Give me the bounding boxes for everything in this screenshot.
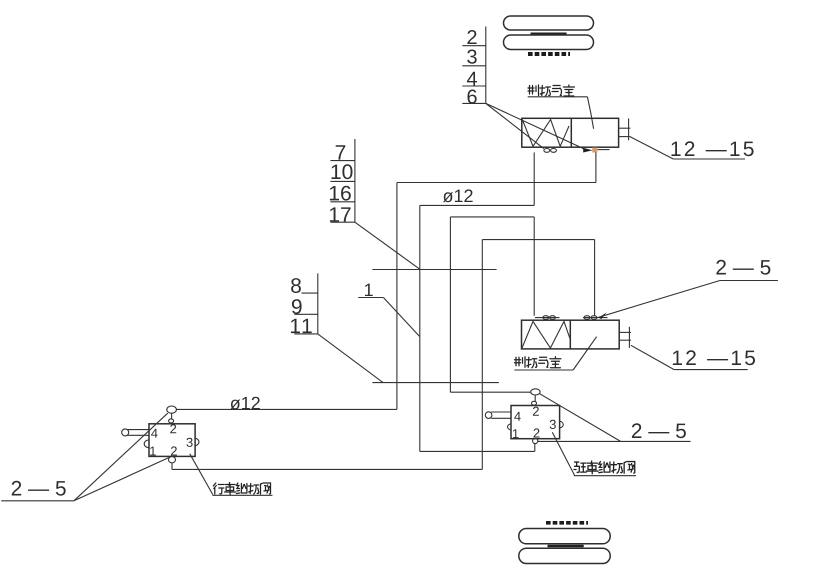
12-15 lower label [673, 350, 755, 365]
service valve left plug cap [122, 429, 129, 436]
air bellows top: middle connector bar [531, 32, 567, 35]
callout 7 underline [330, 160, 355, 162]
2-5 left underline [1, 500, 74, 502]
pipe size label ø12 upper [443, 189, 473, 202]
leader from lower chamber right port to 2-5 right [599, 281, 720, 318]
service valve bottom port circle [169, 457, 176, 463]
upper chamber right port orange marker [592, 148, 597, 153]
parking valve port 4 label [514, 412, 521, 421]
lower chamber push-rod clevis stub 2 [619, 339, 631, 341]
callout stack 2/3/4/6 vertical line [485, 27, 487, 104]
callout 16 label [330, 186, 351, 201]
leader from callout 6 to right port of upper chamber [486, 103, 584, 148]
parking valve port 3 label [550, 420, 556, 429]
parking valve bottom port stub [534, 444, 536, 452]
callout 6 underline [462, 102, 486, 104]
leader 2-5 left to service valve top port [74, 413, 168, 501]
callout 11 underline [294, 333, 318, 335]
service valve left plug line 2 [127, 434, 149, 436]
callout 17 label [330, 207, 351, 221]
lower chamber push-rod pin [628, 327, 630, 348]
service valve top port oval [169, 419, 174, 423]
label zhuchejidongfa (parking relay valve) [574, 461, 635, 474]
callout 2 underline [462, 45, 486, 47]
service valve left plug line 1 [127, 429, 149, 431]
label zhidongqishi (brake chamber) lower [515, 357, 561, 368]
service valve label leader [190, 454, 213, 495]
wire: horizontal run y182 [397, 182, 596, 184]
callout 3 underline [462, 65, 486, 67]
callout 16 underline [330, 201, 355, 203]
parking valve left plug line 2 [491, 417, 511, 419]
service valve top port neck [171, 413, 173, 419]
upper chamber push-rod pin [628, 118, 630, 140]
leader to 12-15 lower [631, 345, 674, 369]
callout 11 label [291, 319, 312, 333]
pipe bus line 1 [372, 269, 496, 271]
lower chamber left port circle 2 [550, 316, 556, 320]
lower brake chamber body [522, 320, 620, 349]
callout 1 underline [358, 297, 383, 299]
parking valve label underline [574, 475, 636, 477]
pipe bus line 2 [372, 382, 499, 384]
leader to 12-15 upper [630, 137, 673, 159]
callout 1 label [365, 284, 373, 296]
air bellows bottom: lower pill [519, 548, 610, 563]
wire: vertical run x397 [396, 183, 398, 410]
callout 8 underline [302, 292, 318, 294]
2-5 right underline [720, 280, 778, 282]
lower brake chamber spring [522, 321, 570, 348]
air bellows bottom: dashed mounting bar [546, 521, 588, 525]
upper chamber right port arrowhead [583, 148, 592, 153]
callout stack 7/10/16/17 vertical line [354, 139, 356, 222]
leader from callout 17 to pipes [355, 222, 420, 269]
air bellows bottom: upper pill [519, 529, 610, 544]
parking valve port 2 top label [533, 407, 539, 416]
2-5 parking label [632, 423, 686, 438]
pipe size label ø12 lower [230, 397, 260, 410]
2-5 right label [716, 260, 770, 275]
callout 8 label [291, 278, 301, 293]
callout 17 underline [330, 221, 355, 223]
service valve label underline [212, 494, 272, 496]
leader from callout 6 to left port of upper chamber [486, 103, 544, 148]
wire: down to lower chamber right port [594, 240, 596, 316]
wire: vertical run x420 [419, 205, 421, 451]
12-15 lower underline [674, 369, 748, 371]
12-15 upper label [672, 141, 754, 156]
air bellows top: upper pill [504, 16, 594, 30]
leader from callout 11 to pipe bus 2 [318, 334, 383, 383]
label underline lower brake chamber [514, 369, 573, 371]
callout 6 label [468, 90, 477, 104]
label leader into upper chamber [587, 97, 593, 129]
wire: service valve bottom port stub [171, 463, 173, 469]
leader from callout 1 to pipe [383, 298, 419, 337]
parking valve port 2 bottom label [534, 428, 540, 437]
label underline upper brake chamber [528, 96, 588, 98]
callout 2 label [467, 30, 476, 44]
wire: horizontal run y469 [172, 468, 482, 470]
callout 9 underline [294, 313, 318, 315]
upper chamber push-rod clevis stub 1 [619, 127, 631, 129]
wire: horizontal to service valve top port [176, 408, 397, 410]
lower chamber push-rod clevis stub 1 [619, 331, 631, 333]
lower chamber right port circle 2 [591, 316, 597, 320]
service valve left bump [144, 440, 149, 448]
wire: vertical run x482 [481, 240, 483, 470]
service valve port 2 bottom label [171, 446, 177, 455]
service valve top port circle [167, 406, 177, 413]
air bellows bottom: middle connector bar [548, 545, 584, 548]
upper brake chamber spring [522, 120, 569, 147]
service valve port 3 label [187, 438, 193, 447]
upper brake chamber divider [570, 118, 572, 147]
parking valve label leader [552, 432, 574, 475]
parking valve left plug cap [485, 412, 492, 419]
lower brake chamber divider [569, 320, 571, 349]
parking valve port 1 label [513, 429, 519, 438]
wire: down to lower chamber left port [533, 217, 535, 316]
parking valve left bump [508, 424, 511, 430]
parking valve bottom port circle [533, 438, 538, 443]
service valve port 2 top label [170, 424, 176, 433]
wire: upper chamber right port down [595, 152, 597, 182]
callout 7 label [336, 145, 346, 159]
label zhidongqishi (brake chamber) upper [528, 85, 574, 96]
2-5 left label [12, 481, 66, 496]
service valve right bump [195, 438, 199, 446]
label leader into lower chamber [573, 337, 597, 370]
wire: horizontal to parking valve top port [450, 391, 531, 393]
parking valve top port oval [532, 401, 537, 405]
callout 10 underline [330, 180, 355, 182]
upper chamber push-rod clevis stub 2 [619, 136, 631, 138]
wire: horizontal to parking valve bottom port [420, 450, 535, 452]
callout 10 label [332, 164, 353, 179]
air bellows top: lower pill [504, 35, 594, 50]
upper brake chamber body [522, 118, 619, 147]
upper chamber left port circle 2 [551, 149, 557, 153]
parking valve top port circle [531, 389, 540, 395]
parking valve left plug line 1 [491, 411, 511, 413]
callout 9 label [292, 299, 302, 314]
upper chamber right port stub line [598, 149, 610, 151]
wire: vertical run x450 [449, 217, 451, 392]
lower chamber right port circle 1 [584, 316, 590, 320]
leader from parking valve top port to 2-5 [540, 394, 621, 442]
parking valve top port neck [534, 395, 536, 401]
2-5 parking underline [538, 440, 691, 442]
lower chamber right port stub [583, 317, 608, 319]
service relay valve body [149, 424, 195, 457]
label xingchejidongfa (service relay valve) [213, 483, 270, 495]
parking relay valve body [511, 406, 560, 439]
wire: horizontal run y205 [420, 204, 534, 206]
wire: horizontal run y240 [482, 239, 594, 241]
lower chamber left port circle 1 [543, 316, 549, 320]
callout 4 label [467, 72, 477, 86]
service valve port 1 label [150, 447, 156, 456]
wire: horizontal run y217 [450, 216, 534, 218]
parking valve right bump [560, 421, 564, 428]
upper chamber left port circle 1 [544, 149, 550, 153]
air bellows top: dashed mounting bar [528, 52, 570, 56]
callout 4 underline [462, 85, 486, 87]
leader 2-5 left to service valve bottom port [74, 457, 170, 501]
lower chamber right port arrowhead [599, 312, 607, 319]
service valve port 4 label [151, 429, 158, 438]
lower chamber left port stub [535, 317, 560, 319]
12-15 upper underline [673, 158, 745, 160]
wire: upper chamber left port down [533, 152, 535, 205]
callout 3 label [467, 50, 477, 64]
callout stack 8/9/11 vertical line [317, 273, 319, 334]
